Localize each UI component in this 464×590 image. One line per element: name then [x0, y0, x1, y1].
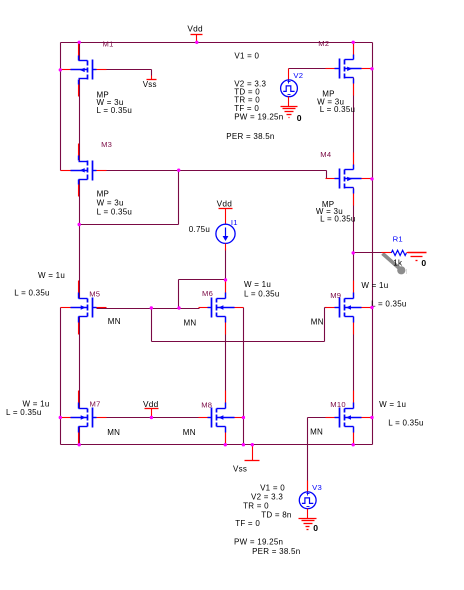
- wire gate branch rise: [324, 308, 326, 342]
- wire M1 drain riser: [79, 43, 81, 61]
- svg-text:L = 0.35u: L = 0.35u: [320, 214, 356, 223]
- junction gate line node: [177, 169, 180, 172]
- ground 0 at V3: [299, 509, 317, 530]
- wire V3 riser: [307, 418, 309, 492]
- transistor M1: [61, 44, 107, 97]
- svg-text:PW = 19.25n: PW = 19.25n: [234, 538, 283, 547]
- svg-text:MN: MN: [310, 427, 323, 436]
- wire M4-M9 link: [353, 188, 355, 299]
- svg-text:Vdd: Vdd: [143, 399, 159, 409]
- svg-text:Vss: Vss: [233, 464, 247, 473]
- svg-text:W = 1u: W = 1u: [38, 271, 65, 280]
- svg-text:L = 0.35u: L = 0.35u: [14, 289, 50, 298]
- svg-text:TR = 0: TR = 0: [243, 502, 269, 511]
- transistor M2: [326, 43, 372, 96]
- svg-text:0: 0: [313, 523, 318, 533]
- svg-text:M4: M4: [320, 150, 331, 159]
- svg-text:L = 0.35u: L = 0.35u: [244, 290, 280, 299]
- wire M9-M10 link: [353, 317, 355, 409]
- svg-text:M1: M1: [103, 39, 114, 48]
- wire gate line drop: [178, 171, 180, 225]
- svg-text:M3: M3: [101, 140, 112, 149]
- Vdd symbol gate: [145, 409, 159, 418]
- svg-text:MN: MN: [184, 318, 197, 327]
- transistor M7: [61, 391, 107, 445]
- wire gate branch run: [152, 341, 325, 343]
- wire top Vdd rail: [61, 42, 373, 44]
- wire left bulk rail upper: [60, 43, 62, 171]
- junction Vss tick at rail: [251, 443, 254, 446]
- junction I1-M6 node: [224, 278, 227, 281]
- transistor M3: [61, 144, 107, 197]
- svg-text:I: I: [406, 267, 408, 276]
- current source I1: [216, 224, 235, 250]
- junction M4 bulk at right rail: [370, 177, 373, 180]
- svg-text:TF = 0: TF = 0: [234, 104, 259, 113]
- junction Vdd tick at gate row: [150, 416, 153, 419]
- transistor M5: [61, 281, 107, 335]
- voltage source V3: [299, 481, 316, 509]
- wire I1 node drop: [178, 280, 180, 309]
- wire M1 gate run: [97, 69, 152, 71]
- wire M10 gate run: [308, 417, 329, 419]
- junction M8 bulk node: [242, 416, 245, 419]
- wire gate branch drop: [151, 309, 153, 342]
- svg-text:M10: M10: [330, 400, 346, 409]
- svg-text:0.75u: 0.75u: [189, 225, 210, 234]
- wire left bulk rail lower: [60, 308, 62, 445]
- svg-text:PER = 38.5n: PER = 38.5n: [226, 132, 274, 141]
- wire M1 gate drop to Vss: [151, 70, 153, 76]
- junction M8 source at rail: [224, 443, 227, 446]
- svg-text:R1: R1: [393, 235, 403, 244]
- svg-text:MN: MN: [183, 428, 196, 437]
- svg-text:V2 = 3.3: V2 = 3.3: [251, 493, 283, 502]
- svg-text:L = 0.35u: L = 0.35u: [388, 418, 424, 427]
- junction M2 drain at Vdd rail: [352, 41, 355, 44]
- wire mirror node link: [80, 224, 179, 226]
- junction M2 bulk at right rail: [370, 67, 373, 70]
- junction M10 source at rail: [352, 443, 355, 446]
- junction gate branch node: [150, 306, 153, 309]
- svg-text:PER = 38.5n: PER = 38.5n: [252, 547, 300, 556]
- junction bulk drop at rail: [242, 443, 245, 446]
- svg-text:M2: M2: [318, 39, 329, 48]
- svg-text:PW = 19.25n: PW = 19.25n: [234, 113, 283, 122]
- svg-text:W = 1u: W = 1u: [244, 280, 271, 289]
- wire M9 gate stub wire: [325, 307, 327, 309]
- voltage source V2: [281, 69, 298, 97]
- svg-text:V1 = 0: V1 = 0: [234, 52, 259, 61]
- wire R1 node wire: [354, 252, 382, 254]
- svg-text:TD = 8n: TD = 8n: [261, 511, 291, 520]
- ground 0 at R1: [408, 253, 427, 261]
- wire M2 drain riser: [353, 43, 355, 60]
- wire M2-M4 link: [353, 78, 355, 170]
- svg-text:L = 0.35u: L = 0.35u: [6, 408, 42, 417]
- svg-text:W = 3u: W = 3u: [97, 198, 124, 207]
- wire M6-M8 link: [225, 317, 227, 409]
- svg-text:W = 1u: W = 1u: [379, 400, 406, 409]
- Vss symbol top: [147, 76, 157, 80]
- svg-text:M7: M7: [90, 399, 101, 408]
- svg-text:M6: M6: [202, 289, 213, 298]
- svg-text:V2: V2: [293, 71, 303, 80]
- svg-text:Vdd: Vdd: [217, 199, 233, 209]
- wire M3-M5 link: [79, 180, 81, 299]
- junction M1 bulk at left rail: [59, 68, 62, 71]
- transistor M9: [326, 281, 372, 335]
- wire M5-M7 link: [79, 317, 81, 409]
- svg-text:Vss: Vss: [143, 80, 157, 89]
- transistor M8: [199, 391, 244, 445]
- wire M6-M8 bulk drop: [243, 308, 245, 445]
- wire M3-M4 gate line: [97, 170, 327, 172]
- wire M5-M6 gate row: [97, 308, 200, 310]
- probe marker at R1: [383, 254, 408, 277]
- svg-text:0: 0: [421, 258, 426, 268]
- junction M1 drain at Vdd rail: [78, 41, 81, 44]
- wire I1 to M6 drain: [225, 249, 227, 299]
- svg-text:L = 0.35u: L = 0.35u: [97, 106, 133, 115]
- wire M4 gate jog: [326, 171, 328, 179]
- wire M6 source drop: [225, 427, 227, 445]
- transistor M10: [326, 391, 372, 445]
- svg-text:W = 1u: W = 1u: [361, 281, 388, 290]
- wire M10 source drop: [353, 427, 355, 445]
- wire bottom Vss rail: [61, 444, 373, 446]
- svg-text:TF = 0: TF = 0: [235, 519, 260, 528]
- svg-text:L = 0.35u: L = 0.35u: [371, 299, 407, 308]
- junction Vdd tick at rail: [195, 41, 198, 44]
- svg-text:V1 = 0: V1 = 0: [260, 483, 285, 492]
- junction R1 node: [352, 251, 355, 254]
- svg-text:M8: M8: [201, 400, 212, 409]
- svg-text:MP: MP: [97, 189, 110, 198]
- junction M7 bulk at left rail: [59, 416, 62, 419]
- junction I1 drop node: [177, 306, 180, 309]
- svg-text:MN: MN: [311, 318, 324, 327]
- wire M7-M8 gate row: [97, 417, 201, 419]
- resistor R1: [382, 250, 425, 255]
- wire M7 source drop: [79, 427, 81, 445]
- junction M9 bulk at right rail: [370, 306, 373, 309]
- Vdd symbol mid: [219, 209, 233, 225]
- svg-text:Vdd: Vdd: [187, 24, 203, 34]
- junction M10 bulk at right rail: [370, 416, 373, 419]
- svg-text:MN: MN: [107, 428, 120, 437]
- wire M1-M3 link: [79, 79, 81, 162]
- Vss symbol bottom: [245, 445, 260, 461]
- junction mirror node: [78, 223, 81, 226]
- Vdd symbol top: [191, 35, 203, 43]
- transistor M6: [199, 281, 244, 335]
- svg-text:MN: MN: [108, 317, 121, 326]
- svg-text:1k: 1k: [393, 259, 403, 268]
- junction M7 source at rail: [78, 443, 81, 446]
- wire I1 node west: [179, 279, 226, 281]
- ground 0 at V2: [281, 97, 298, 118]
- svg-text:L = 0.35u: L = 0.35u: [320, 105, 356, 114]
- svg-text:I1: I1: [231, 218, 238, 227]
- svg-text:0: 0: [297, 113, 302, 123]
- svg-text:V3: V3: [312, 483, 322, 492]
- wire V2 to M2 gate: [289, 68, 331, 70]
- wire right bulk rail: [372, 43, 374, 445]
- transistor M4: [326, 153, 372, 206]
- svg-text:L = 0.35u: L = 0.35u: [97, 207, 133, 216]
- svg-text:M5: M5: [89, 289, 100, 298]
